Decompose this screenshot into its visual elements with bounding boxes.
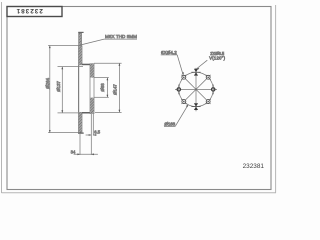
- spoke NE: [196, 75, 211, 90]
- ext D147 bottom: [95, 111, 122, 113]
- drawing frame: [7, 7, 271, 190]
- hole W: [177, 88, 180, 91]
- svg-text:Ø147: Ø147: [112, 84, 117, 95]
- hole NE: [206, 75, 211, 80]
- bore extension top: [94, 77, 109, 79]
- svg-text:232381: 232381: [243, 163, 265, 170]
- leader M8 note: [81, 39, 137, 45]
- svg-text:Ø68: Ø68: [100, 83, 105, 92]
- ext 34 left: [79, 134, 81, 155]
- dim line D137: [61, 67, 63, 113]
- ext 6.5 right: [92, 114, 94, 136]
- svg-text:V(120°): V(120°): [209, 55, 225, 60]
- dim 34: [74, 153, 98, 155]
- ext D137 bottom: [58, 112, 80, 114]
- dim 6.5: [86, 134, 92, 136]
- hat bottom plate: [82, 112, 94, 114]
- hole SW: [181, 99, 186, 104]
- spoke SW: [181, 89, 196, 104]
- page left edge: [1, 2, 3, 193]
- spoke NW: [181, 75, 196, 90]
- disc bar outline: [78, 46, 80, 133]
- hat wall hatch lower: [90, 98, 94, 114]
- ext D147 top: [94, 62, 122, 64]
- hole E: [212, 88, 215, 91]
- disc hatch top: [79, 46, 82, 66]
- stud cap: [78, 32, 83, 33]
- title box (top-left): [7, 7, 62, 17]
- ext D264 bottom: [48, 132, 78, 134]
- svg-text:Ø264: Ø264: [45, 77, 50, 88]
- dim line D68: [106, 78, 108, 98]
- spoke S: [195, 89, 197, 111]
- hat wall outline: [90, 64, 94, 114]
- svg-text:6.5: 6.5: [94, 129, 100, 134]
- disc hatch bottom: [79, 112, 82, 133]
- bore extension bottom: [94, 96, 109, 98]
- spoke W: [175, 88, 196, 90]
- dim line D147: [118, 63, 120, 112]
- bowtie S: [194, 103, 198, 110]
- svg-text:34: 34: [71, 149, 76, 154]
- page bottom edge: [2, 192, 277, 194]
- bowtie N: [194, 69, 198, 76]
- ext D137 top: [58, 66, 84, 68]
- ext D264 top: [48, 45, 81, 47]
- stud M8: [79, 33, 82, 45]
- svg-text:232381: 232381: [16, 7, 43, 14]
- center dot: [195, 88, 197, 90]
- hole NW: [181, 75, 186, 80]
- hat wall hatch upper: [90, 64, 94, 78]
- spoke SE: [196, 89, 211, 104]
- svg-text:Ø137: Ø137: [56, 80, 61, 91]
- bolt circle: [179, 72, 213, 106]
- dim line D264: [49, 46, 51, 133]
- ext 6.5 left / 34 right shared: [90, 114, 92, 155]
- spoke N: [195, 68, 197, 90]
- hole SE: [206, 99, 211, 104]
- hat top plate: [82, 64, 94, 65]
- disc bottom cap: [78, 132, 84, 134]
- svg-text:Ø168: Ø168: [164, 122, 175, 127]
- spoke E: [196, 88, 217, 90]
- svg-text:M8X THD 8MM: M8X THD 8MM: [105, 34, 137, 39]
- page right edge: [275, 5, 277, 193]
- svg-text:6XØ4.2: 6XØ4.2: [161, 50, 177, 55]
